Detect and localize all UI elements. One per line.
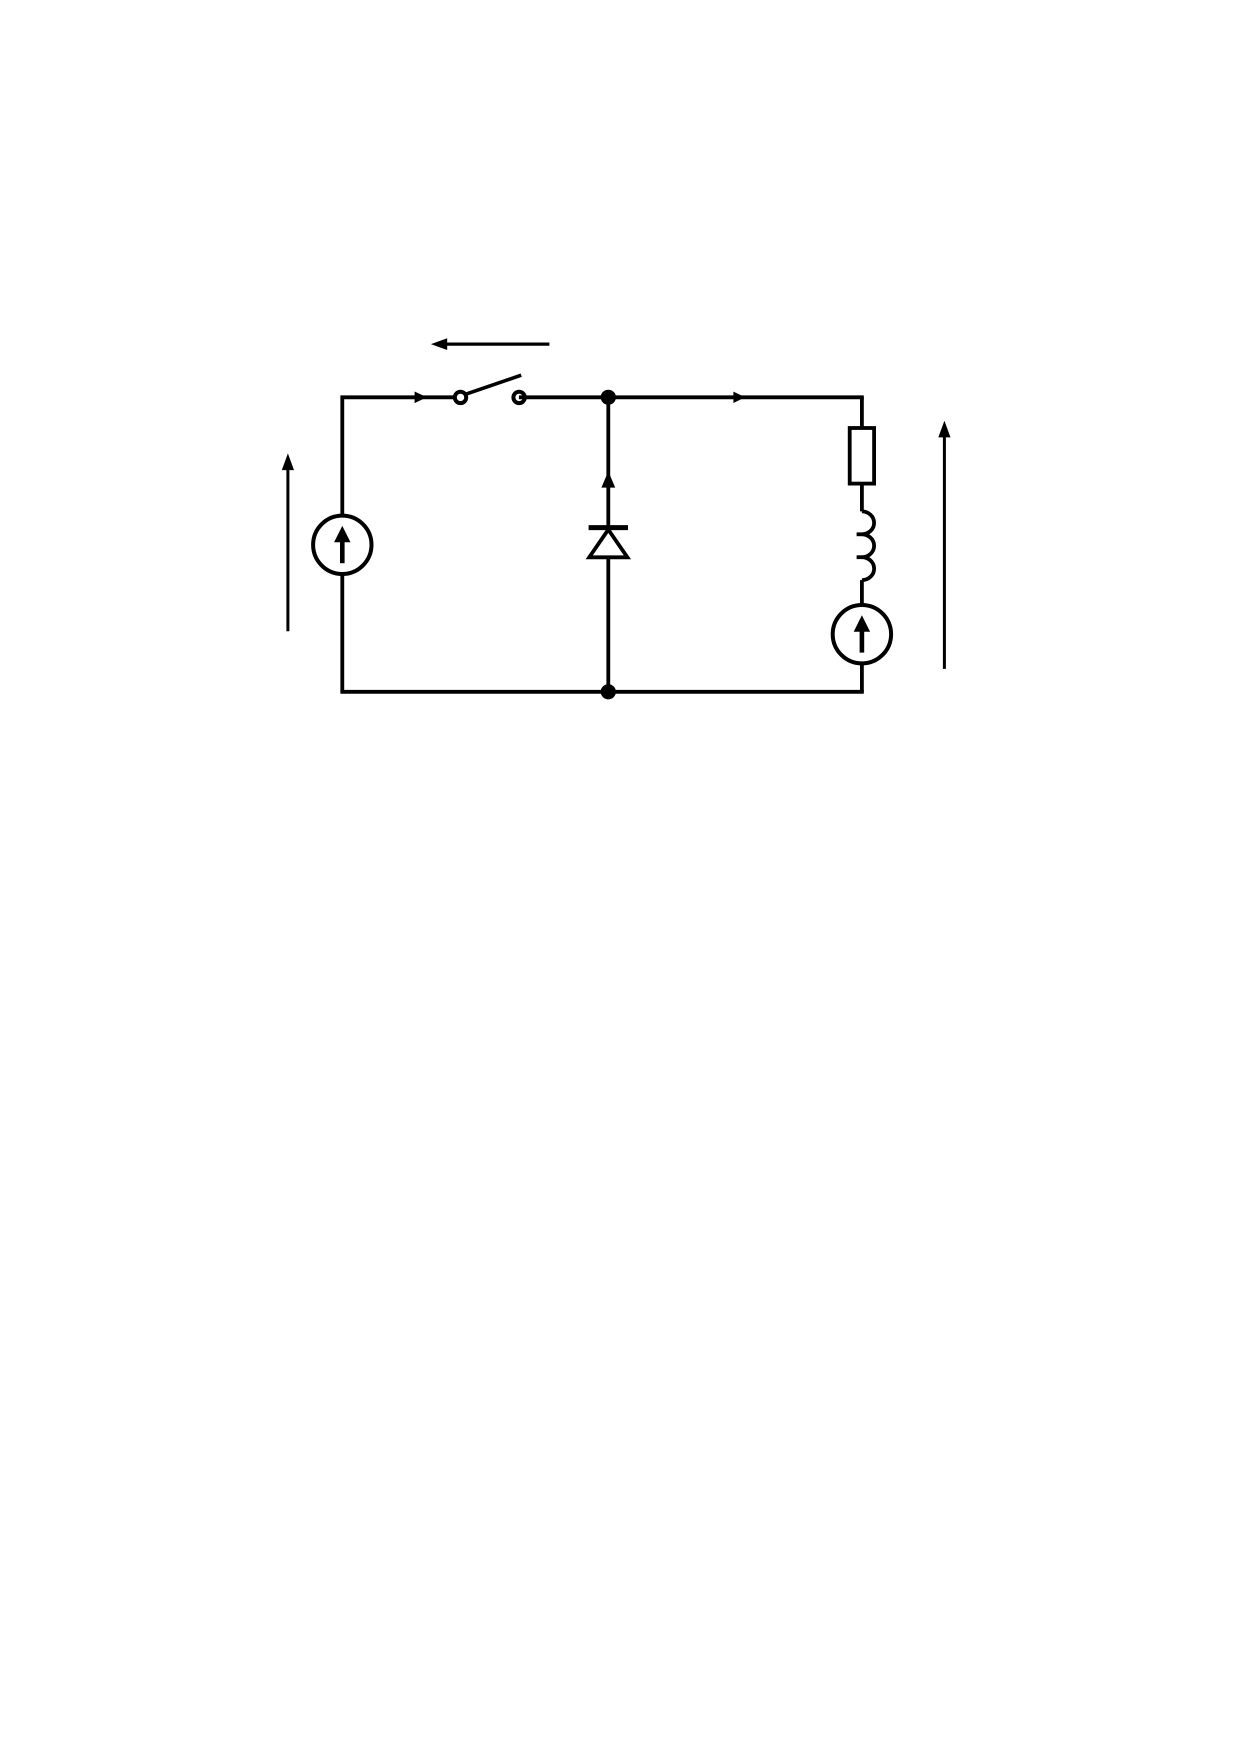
wire inductor to source [860,580,864,634]
inductor L [862,511,874,580]
arrow current loop (top, pointing left) [446,343,549,346]
wire top-right segment (switch to right corner) [519,395,864,399]
current direction arrow on diode branch [601,471,615,487]
wire top-left segment (source to switch) [340,395,453,399]
current direction arrow on top-left wire [415,392,427,404]
diode D triangle [589,530,627,558]
switch blade [466,375,521,394]
wire diode branch upper [606,397,610,527]
current source I2 (right) [833,605,891,663]
resistor R [850,428,874,484]
diode D cathode bar [589,525,628,530]
wire resistor to inductor [860,484,864,512]
wire bottom horizontal [340,690,863,694]
arrow right voltage (pointing up) [943,436,946,669]
switch S (open) left terminal [455,392,466,403]
current direction arrow on top-right wire [733,392,745,403]
wire source to bottom-right corner [860,663,864,691]
wire right vertical branch [860,397,864,428]
arrow left voltage (pointing up) [286,469,289,631]
node top junction [601,390,616,405]
node bottom junction [601,684,616,699]
current source I1 (left) [313,516,371,574]
wire left vertical branch [340,397,344,692]
wire diode branch lower [606,557,610,692]
switch S right terminal [513,392,524,403]
